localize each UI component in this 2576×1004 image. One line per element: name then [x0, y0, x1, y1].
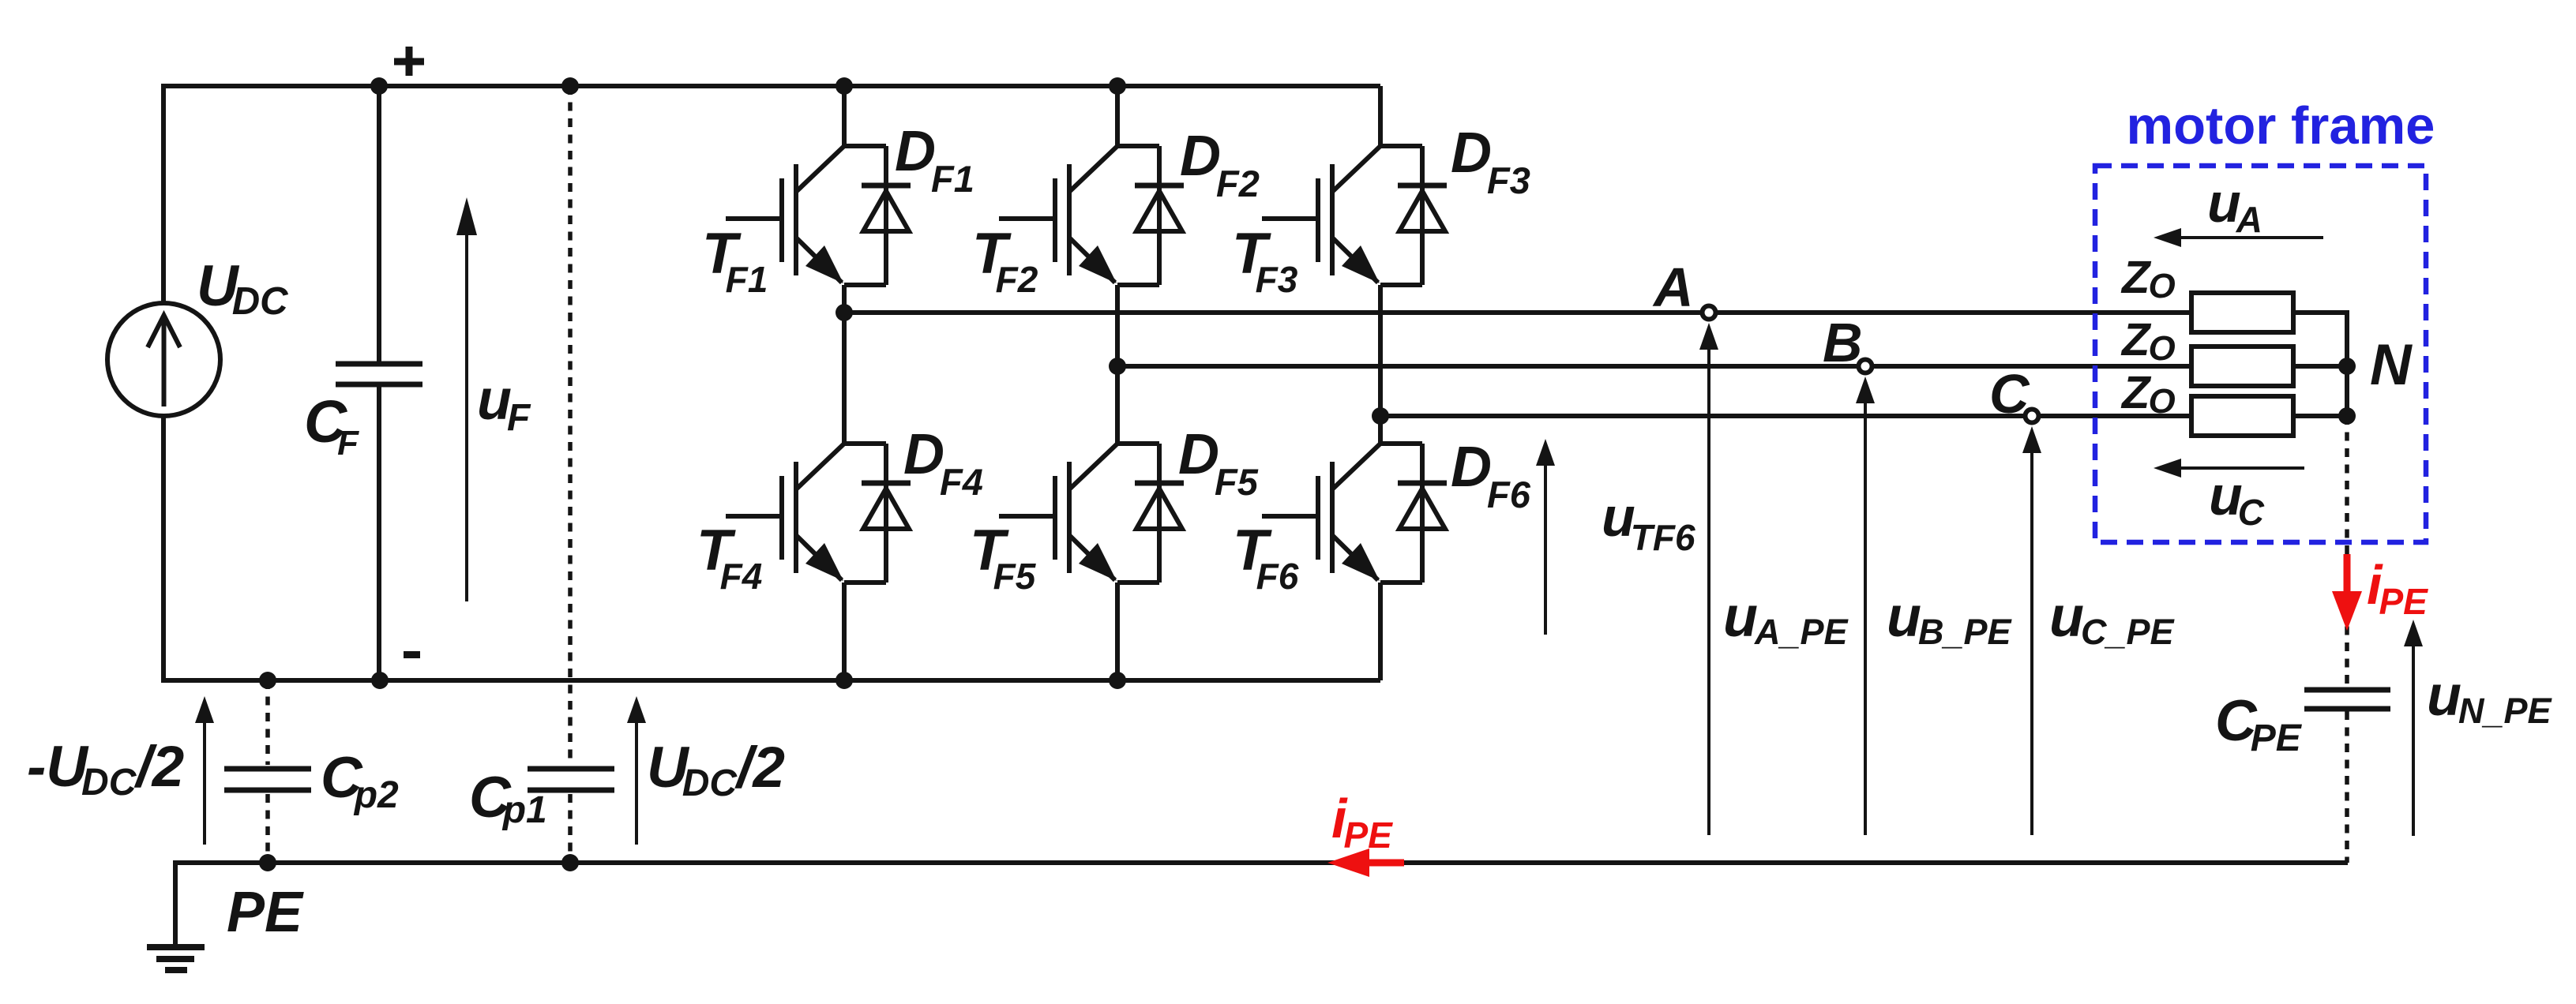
source UDC: [107, 303, 220, 416]
svg-text:DF5: DF5: [1178, 423, 1259, 503]
wire TF3 collector stub: [1378, 86, 1383, 146]
svg-text:iPE: iPE: [1331, 788, 1393, 856]
wire negative DC bus: [163, 417, 1380, 680]
node B: [1859, 360, 1872, 373]
node N junction bottom: [2338, 407, 2356, 425]
node + terminal of DC bus: [394, 58, 424, 66]
transistor TF3: [1332, 146, 1380, 192]
junction node A leg1: [836, 304, 853, 321]
wire TF6 emitter to bus: [1378, 583, 1383, 680]
svg-text:uN_PE: uN_PE: [2427, 665, 2553, 731]
arrow iPE down red: [2344, 554, 2351, 594]
wire TF4 emitter to bus: [842, 583, 847, 680]
arrow uB_PE: [1864, 403, 1867, 835]
transistor TF1: [796, 146, 844, 192]
junction CF top: [370, 77, 388, 95]
svg-text:-UDC/2: -UDC/2: [27, 735, 184, 804]
arrow uA_PE: [1707, 350, 1710, 835]
node - terminal of DC bus: [404, 651, 420, 658]
wire phase C: [1380, 414, 2191, 418]
svg-text:iPE: iPE: [2367, 554, 2428, 622]
svg-text:uF: uF: [477, 369, 531, 439]
svg-text:ZO: ZO: [2120, 252, 2176, 305]
arrow UDC/2: [635, 723, 638, 845]
wire TF6 collector stub: [1378, 416, 1383, 444]
junction node B leg2: [1109, 358, 1126, 375]
svg-text:DF6: DF6: [1451, 436, 1531, 515]
svg-text:Cp2: Cp2: [321, 746, 399, 816]
junction CF bottom: [371, 672, 389, 689]
junction Cp1 PE: [561, 854, 579, 871]
wire PE net: [175, 860, 2348, 865]
diode DF4: [844, 441, 886, 446]
svg-text:A: A: [1652, 257, 1694, 318]
svg-text:PE: PE: [227, 881, 304, 944]
svg-text:UDC/2: UDC/2: [647, 736, 785, 804]
junction Cp2 bus: [259, 672, 276, 689]
transistor TF5: [1069, 444, 1117, 489]
svg-text:B: B: [1823, 312, 1863, 373]
arrow uF: [465, 234, 468, 601]
arrow uC: [2181, 466, 2304, 470]
arrow uN_PE: [2412, 646, 2415, 836]
capacitor Cp1: [528, 766, 614, 772]
svg-text:uB_PE: uB_PE: [1887, 586, 2013, 652]
svg-text:TF3: TF3: [1232, 222, 1298, 300]
node N junction mid: [2338, 358, 2356, 375]
junction leg2 top bus: [1109, 77, 1126, 95]
svg-text:UDC: UDC: [197, 254, 288, 323]
junction leg1 top bus: [836, 77, 853, 95]
svg-text:CF: CF: [304, 388, 359, 463]
wire Cp1 branch dashed: [568, 86, 573, 765]
wire TF2 collector stub: [1115, 86, 1120, 146]
svg-text:DF3: DF3: [1451, 122, 1530, 201]
svg-text:uA: uA: [2207, 172, 2262, 240]
transistor TF2: [1069, 146, 1117, 192]
diode DF3: [1380, 144, 1422, 148]
wire TF3 emitter to phase: [1378, 285, 1383, 416]
svg-text:TF5: TF5: [970, 519, 1037, 597]
wire TF5 emitter to bus: [1115, 583, 1120, 680]
svg-text:Cp1: Cp1: [469, 766, 547, 831]
capacitor Cp2: [224, 766, 311, 772]
wire CF branch: [377, 86, 381, 362]
arrow iPE left red: [1327, 849, 1369, 877]
diode DF2: [1117, 144, 1159, 148]
wire TF2 emitter to phase: [1115, 285, 1120, 366]
wire TF5 collector stub: [1115, 366, 1120, 444]
ground PE: [173, 860, 178, 945]
junction Cp2 PE: [259, 854, 276, 871]
node C: [2026, 410, 2039, 423]
impedance ZO phase B: [2191, 347, 2293, 386]
junction leg1 bottom bus: [836, 672, 853, 689]
junction node C leg3: [1372, 407, 1389, 425]
svg-text:uA_PE: uA_PE: [1723, 586, 1849, 652]
wire Cp2 branch dashed: [265, 680, 270, 765]
arrow uA: [2181, 236, 2323, 239]
impedance ZO phase A: [2191, 293, 2293, 332]
svg-text:DF2: DF2: [1180, 125, 1260, 204]
arrow uC_PE: [2030, 453, 2033, 835]
svg-text:TF1: TF1: [702, 222, 768, 300]
wire TF4 collector stub: [842, 313, 847, 444]
svg-text:motor frame: motor frame: [2127, 96, 2435, 155]
wire TF1 emitter to phase: [842, 285, 847, 313]
capacitor CF: [336, 362, 422, 367]
wire ZO outputs to N: [2293, 313, 2347, 416]
svg-text:uC_PE: uC_PE: [2049, 586, 2176, 652]
wire N to CPE dashed: [2345, 416, 2349, 687]
wire positive DC bus: [163, 86, 1380, 303]
transistor TF4: [796, 444, 844, 489]
junction leg2 bottom bus: [1109, 672, 1126, 689]
arrow -UDC/2: [203, 723, 206, 845]
svg-text:ZO: ZO: [2120, 314, 2176, 368]
capacitor CPE: [2304, 687, 2390, 693]
svg-text:DF4: DF4: [903, 423, 983, 503]
svg-text:TF6: TF6: [1233, 519, 1299, 597]
svg-text:C: C: [1989, 363, 2030, 425]
svg-text:uTF6: uTF6: [1602, 486, 1695, 558]
svg-text:TF2: TF2: [972, 222, 1038, 300]
wire phase A: [844, 310, 2191, 315]
junction Cp1 top: [561, 77, 579, 95]
arrow uTF6: [1544, 466, 1547, 635]
diode DF1: [844, 144, 886, 148]
svg-text:N: N: [2370, 333, 2413, 397]
svg-text:CPE: CPE: [2215, 689, 2303, 759]
svg-text:TF4: TF4: [697, 519, 762, 597]
diode DF6: [1380, 441, 1422, 446]
transistor TF6: [1332, 444, 1380, 489]
wire phase B: [1117, 364, 2191, 369]
diode DF5: [1117, 441, 1159, 446]
svg-text:uC: uC: [2209, 465, 2265, 533]
motor frame box: [2095, 166, 2426, 542]
node A: [1703, 306, 1716, 320]
svg-text:ZO: ZO: [2120, 367, 2176, 421]
impedance ZO phase C: [2191, 396, 2293, 436]
wire TF1 collector stub: [842, 86, 847, 146]
